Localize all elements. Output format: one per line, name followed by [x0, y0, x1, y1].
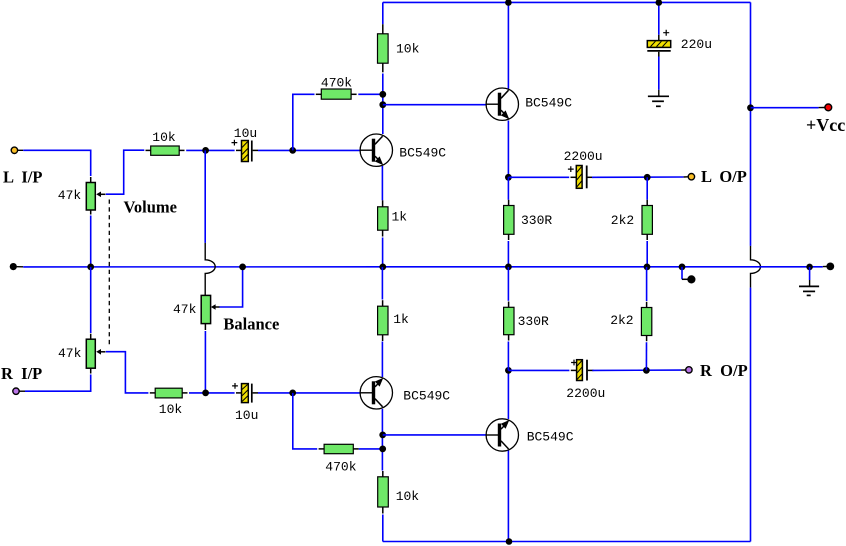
svg-text:R O/P: R O/P [700, 361, 748, 380]
wire 2200u to L O/P terminal [592, 176, 684, 178]
wire volume pot bottom to ground rail [90, 216, 92, 267]
wire cap to Q3 base [258, 392, 360, 394]
wire Q2 collector to top rail [507, 2, 509, 88]
resistor 10k series L [146, 146, 185, 155]
potentiometer 47k Volume [86, 177, 105, 215]
svg-text:+Vcc: +Vcc [806, 115, 845, 135]
node 1k L ground junction [379, 264, 386, 271]
node Q2 collector top rail junction [505, 0, 512, 6]
wire Q1 emitter to 1k [381, 166, 383, 200]
svg-text:10k: 10k [396, 489, 420, 504]
svg-text:2200u: 2200u [564, 149, 603, 164]
resistor 1k L emitter [378, 200, 388, 236]
terminal ground stub dot [687, 275, 695, 283]
wire Q3 base node dropper to 470k R [293, 393, 317, 449]
wire Q1 base node riser to 470k [293, 94, 315, 150]
svg-text:330R: 330R [521, 213, 552, 228]
transistor Q2 BC549C [486, 88, 518, 120]
wire to right ground symbol [809, 267, 811, 280]
wire Q4 emitter to R output node [507, 370, 509, 419]
wire L output node to 2200u [508, 176, 569, 178]
wire R output node to 2200u [508, 369, 569, 371]
wire balance wiper to ground rail [220, 267, 243, 307]
resistor 330R L [504, 177, 514, 267]
node L balance tap junction [202, 147, 209, 154]
svg-text:2200u: 2200u [566, 386, 605, 401]
capacitor 220u supply [647, 2, 670, 51]
wire Q1 collector to Q2 base [383, 104, 487, 106]
node Q1 base junction [289, 147, 296, 154]
node balance wiper ground junction [239, 264, 246, 271]
node +Vcc rail junction [747, 104, 754, 111]
svg-text:BC549C: BC549C [527, 429, 574, 444]
wire Q2 emitter to L output node [507, 121, 509, 178]
ground symbol under 220u [648, 96, 669, 106]
wire ground rail left segment [17, 266, 24, 268]
svg-text:10k: 10k [159, 402, 183, 417]
svg-text:2k2: 2k2 [610, 313, 633, 328]
terminal R I/P [13, 388, 19, 394]
wire Q3 collector column [381, 409, 383, 471]
node 220u top rail junction [656, 0, 663, 6]
svg-text:BC549C: BC549C [403, 388, 450, 403]
svg-text:10u: 10u [235, 408, 258, 423]
terminal L O/P [688, 174, 694, 180]
svg-text:Volume: Volume [124, 198, 177, 217]
gang dashed link volume pots [108, 200, 110, 348]
transistor Q4 BC549C [486, 419, 518, 451]
wire top supply rail [383, 1, 751, 3]
svg-text:L I/P: L I/P [3, 168, 42, 187]
resistor 10k series R [150, 388, 188, 398]
wire 1k L to ground rail [382, 238, 384, 267]
wire Q1 collector column [382, 74, 384, 135]
node right ground symbol junction [806, 264, 813, 271]
resistor 2k2 L [642, 177, 652, 267]
wire right supply rail lower [750, 288, 752, 542]
capacitor 10u L [232, 140, 259, 162]
capacitor 2200u R [571, 360, 594, 381]
wire 1k R to ground rail [381, 267, 383, 300]
wire balance pot bottom to R channel node [204, 331, 206, 393]
potentiometer 47k Balance [201, 295, 219, 330]
svg-text:L O/P: L O/P [701, 167, 747, 186]
node Q3 base junction [289, 390, 296, 397]
svg-text:10k: 10k [396, 41, 420, 56]
resistor 1k R emitter [378, 300, 388, 341]
node Q4 collector bottom rail junction [506, 538, 513, 545]
wire Q3 emitter to 1k R [381, 342, 383, 378]
node R balance tap junction [202, 390, 209, 397]
wire hop of right rail over ground rail [751, 246, 761, 288]
wire right supply rail upper [750, 2, 752, 246]
svg-text:10k: 10k [152, 130, 176, 145]
svg-text:Balance: Balance [223, 315, 279, 334]
resistor 330R R [504, 267, 514, 371]
node R emitter output junction [505, 367, 512, 374]
wire cap to Q1 base [258, 149, 360, 151]
node Q1 collector / 470k junction [379, 91, 386, 98]
wire R wiper to series 10k [106, 352, 149, 393]
svg-text:47k: 47k [173, 302, 197, 317]
svg-text:2k2: 2k2 [611, 213, 634, 228]
wire balance link hop over ground rail [205, 243, 215, 296]
wire 10k L to coupling cap [186, 149, 234, 151]
potentiometer 47k R input [86, 334, 105, 374]
node 330R ground junction [505, 264, 512, 271]
resistor 2k2 R [641, 267, 651, 371]
resistor 10k collector load upper [378, 2, 389, 72]
wire Q3 collector to Q4 base [383, 434, 487, 436]
wire 47k pot R top to ground rail [90, 267, 92, 333]
svg-text:1k: 1k [392, 209, 408, 224]
wire R input to 47k pot bottom [19, 390, 25, 392]
ground symbol right [799, 286, 819, 295]
svg-text:470k: 470k [325, 459, 356, 474]
node R O/P 2k2 junction [643, 367, 650, 374]
terminal R O/P [686, 367, 692, 373]
svg-text:47k: 47k [58, 188, 82, 203]
node Q3 collector / 470k R junction [379, 446, 386, 453]
wire 470k to Q1 collector node [358, 93, 383, 95]
wire balance link upper (blue) [204, 150, 206, 243]
wire 10k lower to bottom rail [382, 515, 384, 542]
wire volume wiper to series 10k [106, 150, 145, 194]
wire ground stub [682, 267, 688, 279]
svg-text:47k: 47k [58, 346, 82, 361]
wire L input to volume pot [18, 149, 23, 151]
svg-text:10u: 10u [234, 126, 257, 141]
terminal L I/P [11, 147, 17, 153]
node L O/P 2k2 junction [644, 174, 651, 181]
wire 470k R to Q3 collector node [359, 448, 383, 450]
resistor 10k collector load lower [378, 471, 389, 514]
wire Q4 collector to bottom rail [507, 451, 509, 542]
svg-text:R I/P: R I/P [1, 364, 42, 383]
svg-text:BC549C: BC549C [399, 146, 446, 161]
terminal +Vcc [825, 104, 832, 111]
svg-text:330R: 330R [518, 314, 549, 329]
capacitor 2200u L [568, 166, 594, 189]
wire +Vcc [751, 107, 819, 109]
terminal ground rail right end dot [826, 263, 834, 271]
node Q1 collector / Q2 base junction [379, 101, 386, 108]
resistor 470k L feedback [316, 89, 357, 99]
svg-text:BC549C: BC549C [525, 95, 572, 110]
wire bottom supply rail [383, 541, 751, 543]
wire 10k R to coupling cap [189, 392, 235, 394]
resistor 470k R feedback [319, 444, 359, 453]
node ground stub junction [679, 264, 686, 271]
node 2k2 L ground junction [644, 264, 651, 271]
svg-text:1k: 1k [393, 312, 409, 327]
wire 2200u to R O/P terminal [592, 369, 681, 371]
transistor Q1 BC549C [360, 134, 392, 166]
capacitor 10u R [232, 383, 258, 403]
svg-text:470k: 470k [321, 76, 352, 91]
node L emitter output junction [505, 174, 512, 181]
node volume/47k pots ground junction [87, 264, 94, 271]
terminal ground rail left end dot [10, 263, 17, 270]
svg-text:220u: 220u [681, 37, 712, 52]
transistor Q3 BC549C [360, 377, 392, 409]
wire 220u to ground symbol [658, 52, 660, 57]
node Q3 collector / Q4 base junction [379, 432, 386, 439]
